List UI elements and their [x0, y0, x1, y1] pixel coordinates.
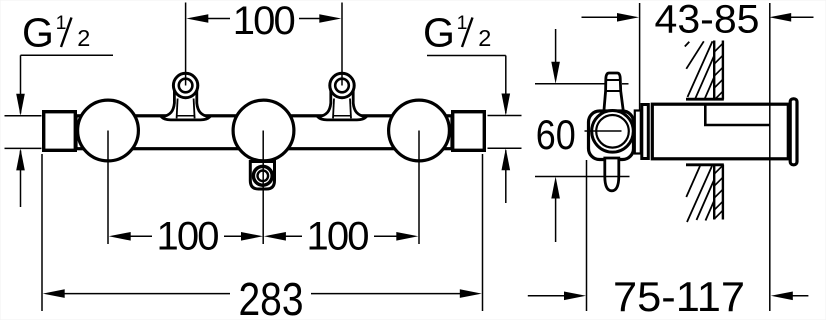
svg-text:100: 100 — [233, 0, 296, 43]
svg-text:43-85: 43-85 — [655, 0, 760, 42]
svg-text:G: G — [22, 10, 54, 56]
extension line 43-85 left — [639, 3, 641, 110]
center line circle 2 — [262, 131, 264, 245]
svg-text:2: 2 — [77, 25, 90, 51]
extension line 283 left — [41, 154, 43, 311]
extension line 60 lower — [535, 176, 630, 178]
svg-text:1: 1 — [457, 12, 468, 34]
svg-text:100: 100 — [157, 215, 220, 259]
arrow up G1/2 right — [505, 150, 507, 203]
wall lower finish layer — [713, 165, 715, 220]
wall lower hole edge — [686, 163, 724, 166]
top mounting bracket 2 — [318, 73, 366, 120]
wall upper finish layer — [713, 41, 715, 100]
bottom mounting lug — [250, 162, 274, 190]
thread extension lines right — [488, 115, 522, 117]
leader G1/2 left — [21, 54, 114, 56]
valve body circle 2 — [233, 100, 294, 161]
extension line 75-117 left — [586, 160, 588, 311]
svg-text:G: G — [423, 10, 455, 56]
center line circle 1 — [107, 131, 109, 245]
dimension 43-85 — [582, 0, 814, 42]
arrow up G1/2 left — [20, 151, 22, 208]
flange ring — [790, 99, 797, 165]
mounting ring — [642, 105, 649, 159]
extension line 283 right — [482, 154, 484, 311]
thread extension lines left — [5, 115, 42, 117]
center dash — [585, 130, 622, 132]
label G1/2 left — [22, 10, 90, 56]
valve spindle — [604, 73, 623, 111]
left union cap — [44, 112, 76, 151]
wall upper hole edge — [686, 98, 724, 101]
svg-text:2: 2 — [478, 25, 491, 51]
valve body circle 3 — [389, 100, 450, 161]
housing bottom lobe — [605, 158, 619, 191]
cartridge ring outer — [592, 111, 634, 153]
svg-text:100: 100 — [307, 215, 370, 259]
dimension 283 — [43, 273, 482, 320]
svg-text:283: 283 — [239, 273, 304, 320]
right union cap — [453, 112, 485, 151]
center line circle 3 — [418, 131, 420, 245]
extension line 60 upper — [535, 83, 605, 85]
extension line bracket 2 — [341, 3, 343, 86]
dimension 100 bottom right — [264, 215, 418, 259]
top mounting bracket 1 — [162, 73, 210, 120]
svg-text:60: 60 — [536, 111, 576, 158]
sleeve tube — [652, 104, 788, 159]
dimension 100 bottom left — [109, 215, 263, 259]
sleeve inner step — [705, 106, 769, 126]
label G1/2 right — [423, 10, 491, 56]
cartridge housing — [589, 111, 634, 160]
extension line bracket 1 — [185, 3, 187, 86]
dimension 60 — [536, 29, 576, 242]
common extension line right — [769, 3, 771, 311]
cartridge ring inner — [596, 115, 629, 148]
neck — [635, 111, 641, 154]
dimension 100 top — [186, 0, 341, 43]
valve body circle 1 — [78, 100, 139, 161]
wall hatching lower — [686, 165, 723, 222]
svg-text:1: 1 — [56, 12, 67, 34]
wall hatching upper — [685, 41, 723, 100]
svg-text:75-117: 75-117 — [613, 273, 745, 320]
leader G1/2 right — [427, 55, 506, 57]
dimension 75-117 — [528, 273, 809, 320]
mounting rail tube — [76, 116, 452, 149]
